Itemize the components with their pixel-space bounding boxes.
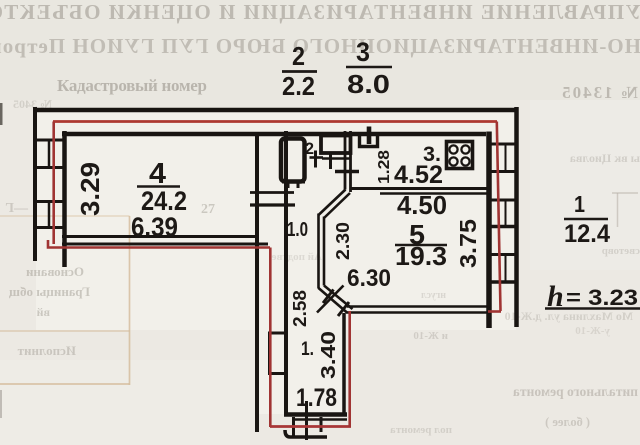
wall: room5 lower chamfer inner — [324, 286, 353, 310]
stove burner 3 — [449, 157, 457, 165]
wall: right exterior — [514, 107, 519, 327]
svg-text:ы вк Циолва: ы вк Циолва — [570, 151, 640, 165]
svg-text:№ 13405: № 13405 — [560, 83, 638, 102]
window R2 top cap — [487, 199, 517, 202]
bathtub bottom bar — [282, 180, 305, 184]
svg-text:Основани: Основани — [25, 264, 84, 279]
svg-text:нгусл: нгусл — [421, 290, 446, 301]
svg-text:2.30: 2.30 — [333, 222, 353, 260]
room label 4 underline — [137, 185, 180, 187]
svg-text:Кадастровый номер: Кадастровый номер — [57, 76, 207, 95]
red boundary top line — [53, 120, 497, 123]
entrance door lower line — [285, 430, 327, 437]
wall: room5 bottom upper line — [347, 305, 488, 308]
sink lower shelf — [322, 157, 351, 160]
red boundary under room4 — [48, 240, 270, 248]
bleed-through right bracket horizontal — [612, 192, 638, 194]
wall: room5 bottom lower line — [347, 311, 488, 314]
fraction room 3 bar — [346, 66, 392, 69]
svg-text:у-Ж-10: у-Ж-10 — [575, 325, 610, 337]
fraction room 1 bar — [564, 218, 608, 220]
bathtub leg 2 — [297, 183, 300, 188]
door D4 upper tick — [250, 191, 294, 194]
entrance threshold line — [292, 418, 347, 421]
svg-text:пол ремонта: пол ремонта — [390, 424, 452, 436]
svg-text:—Г: —Г — [5, 201, 29, 216]
svg-text:= 3.23: = 3.23 — [566, 285, 638, 310]
svg-text:( более ): ( более ) — [545, 415, 590, 429]
wall: room5 upper chamfer outer — [319, 190, 346, 216]
red boundary right bottom corner — [488, 310, 501, 313]
svg-text:2: 2 — [292, 41, 305, 71]
toilet bowl box — [360, 133, 378, 147]
bleed-through tan table right border — [129, 216, 131, 385]
toilet bar — [363, 133, 376, 136]
red boundary hallway right vertical — [348, 311, 351, 427]
entrance door jamb 2 — [305, 401, 308, 440]
red boundary right vertical — [497, 122, 501, 312]
entrance door jamb 1 — [292, 417, 295, 436]
window W1 top cap — [33, 139, 65, 142]
svg-text:1.: 1. — [301, 339, 314, 360]
wall: room 4 bottom upper line — [62, 235, 257, 238]
svg-text:2.58: 2.58 — [290, 290, 310, 327]
window R2 middle line — [505, 200, 507, 227]
window W2 middle line — [48, 202, 51, 228]
wall: right interior face — [486, 132, 492, 329]
wall: partition room4 / shaft — [255, 133, 259, 432]
svg-text:19.3: 19.3 — [395, 241, 447, 271]
wall: corridor left face — [284, 131, 288, 414]
svg-text:3.29: 3.29 — [75, 162, 105, 216]
bathroom door tick — [310, 156, 324, 159]
red boundary bottom horizontal — [270, 425, 351, 428]
toilet stem — [367, 127, 372, 145]
svg-text:6.30: 6.30 — [347, 265, 391, 292]
svg-text:УПРАВЛЕНИЕ ИНВЕНТАРИЗАЦИИ И ОЦ: УПРАВЛЕНИЕ ИНВЕНТАРИЗАЦИИ И ОЦЕНКИ ОБЪЕК… — [0, 0, 640, 24]
svg-text:4.52: 4.52 — [394, 161, 443, 189]
sink pedestal — [329, 154, 332, 169]
svg-text:НО-ИНВЕНТАРИЗАЦИОННОГО БЮРО ГУ: НО-ИНВЕНТАРИЗАЦИОННОГО БЮРО ГУП ГУИОН Пе… — [0, 34, 640, 58]
wall: left exterior — [33, 107, 37, 261]
window W1 bottom cap — [33, 166, 65, 169]
bleed-through tan table top border — [0, 215, 130, 217]
bathtub — [281, 139, 305, 182]
window R2 bottom cap — [487, 225, 517, 229]
wall: bathroom-kitchen divider left line — [344, 131, 347, 190]
wall: kitchen bottom / room5 top upper line — [351, 187, 487, 190]
window W2 top cap — [33, 200, 65, 203]
sink — [321, 136, 351, 154]
window R1 top cap — [487, 143, 517, 146]
svg-text:3.75: 3.75 — [455, 219, 481, 268]
svg-text:3.40: 3.40 — [318, 331, 340, 379]
svg-text:8.0: 8.0 — [347, 69, 390, 99]
svg-text:1.28: 1.28 — [376, 150, 393, 184]
bleed-through right bracket vertical — [617, 193, 619, 227]
bathroom door leaf — [314, 151, 317, 168]
door D5 swing line — [317, 286, 344, 313]
svg-text:1.0: 1.0 — [287, 219, 308, 241]
window R3 top cap — [487, 253, 517, 256]
svg-text:2: 2 — [305, 139, 314, 158]
entrance door jamb 3 — [320, 417, 323, 432]
fraction room 2 bar — [282, 70, 317, 73]
stove burner 4 — [461, 157, 469, 165]
svg-text:и Ж-10: и Ж-10 — [413, 330, 448, 342]
bathtub leg 1 — [287, 183, 290, 188]
svg-text:2.2: 2.2 — [282, 71, 315, 101]
bleed-through tan table middle border — [0, 330, 130, 332]
wall: hallway right face — [342, 313, 346, 414]
wall: room5 left outer — [317, 214, 320, 289]
red boundary hallway left vertical — [269, 248, 272, 428]
door D5 tick upper — [323, 290, 334, 304]
svg-text:1: 1 — [574, 191, 585, 217]
window R1 middle line — [505, 144, 507, 172]
svg-text:1.78: 1.78 — [296, 384, 337, 412]
svg-text:6.39: 6.39 — [131, 212, 178, 242]
window W2 bottom cap — [33, 226, 65, 229]
bleed-through tan table bottom border — [0, 383, 130, 385]
red boundary left vertical — [52, 122, 55, 245]
wall: room5 top lower line — [380, 192, 487, 195]
svg-text:Границы общ: Границы общ — [9, 284, 90, 299]
svg-text:12.4: 12.4 — [564, 220, 610, 248]
svg-text:Исполнит: Исполнит — [17, 343, 76, 358]
stove burner 2 — [461, 145, 469, 153]
window R1 bottom cap — [487, 170, 517, 173]
wall: bathroom-kitchen divider right line — [349, 131, 352, 192]
door D5 tick lower — [338, 302, 349, 316]
wall: top interior face — [62, 132, 486, 137]
niche in hallway wall — [270, 333, 287, 374]
wall: room 4 bottom lower line — [62, 243, 268, 246]
door WC tick — [335, 170, 359, 174]
door D4 lower tick — [250, 203, 295, 206]
svg-text:Ай подтве: Ай подтве — [272, 251, 322, 263]
wall: room5 upper chamfer inner — [324, 193, 350, 218]
left page edge faint dash — [0, 390, 2, 418]
wall: hallway bottom — [284, 412, 347, 417]
wall: left interior face — [62, 131, 67, 267]
svg-text:4.50: 4.50 — [397, 190, 447, 220]
svg-text:3: 3 — [356, 37, 370, 67]
room label 5 underline — [395, 244, 447, 247]
svg-text:Мо Махлина ул. д.Ж-10: Мо Махлина ул. д.Ж-10 — [505, 309, 633, 323]
left page edge dark dash — [0, 103, 3, 125]
window R3 bottom cap — [487, 280, 517, 284]
height label underline — [545, 307, 640, 309]
svg-text:питального ремонта: питального ремонта — [513, 384, 638, 399]
wall: room5 left inner — [323, 217, 326, 286]
window W1 middle line — [48, 140, 51, 168]
stove — [447, 142, 473, 169]
svg-text:вй: вй — [37, 305, 50, 319]
wall: room5 lower chamfer outer — [319, 288, 348, 313]
wall: top exterior — [33, 108, 517, 113]
window R3 middle line — [505, 255, 507, 283]
stove burner 1 — [449, 145, 457, 153]
svg-text:27: 27 — [201, 202, 215, 217]
